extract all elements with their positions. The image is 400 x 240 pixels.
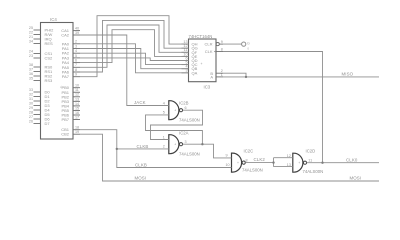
svg-text:5: 5 [163,111,165,115]
wire net IC3 CLR -> pullup pad [223,43,242,45]
svg-text:10: 10 [75,84,79,88]
svg-text:IC2B: IC2B [179,100,189,105]
svg-text:17: 17 [75,115,79,119]
svg-text:RS3: RS3 [45,78,54,83]
svg-text:1: 1 [221,73,223,77]
svg-text:9: 9 [75,73,77,77]
svg-text:33: 33 [29,88,33,92]
svg-text:D7: D7 [45,121,51,126]
connector pad at CLR [242,42,246,46]
svg-text:74ALS00N: 74ALS00N [179,118,200,123]
svg-text:2: 2 [75,40,77,44]
svg-text:2: 2 [163,145,165,149]
wire net CLK2 tie vertical [273,158,275,167]
svg-text:5: 5 [75,54,77,58]
wire net MISO : IC3 B(2) tie [223,73,246,77]
svg-text:35: 35 [29,76,33,80]
svg-text:11: 11 [75,88,79,92]
svg-text:CLK0: CLK0 [346,157,358,162]
wire net PA0 -> IC3 QA [80,44,189,73]
svg-text:32: 32 [29,92,33,96]
svg-text:27: 27 [29,115,33,119]
NAND gate IC2B (74ALS00N) [163,100,200,122]
svg-text:8: 8 [221,47,223,51]
svg-text:74ALS00N: 74ALS00N [242,167,263,172]
svg-text:28: 28 [29,110,33,114]
svg-text:MOSI: MOSI [350,175,362,180]
wire net PA5 -> IC3 QF [80,25,189,67]
svg-text:34: 34 [29,39,33,43]
NAND gate IC2D (74ALS00N) [287,148,323,174]
svg-text:74HCT164N: 74HCT164N [189,34,213,39]
wire net CLKB : CB1 -> IC2C in(10) [80,130,232,168]
IC U IC4 (6522 VIA) [29,17,80,139]
svg-text:39: 39 [75,31,79,35]
junction CLKB [116,148,118,150]
svg-text:3: 3 [185,140,187,144]
wire net IC2A out(3) -> IC2C in(9) [183,144,232,158]
svg-text:CS2: CS2 [45,56,54,61]
svg-text:RES: RES [45,41,54,46]
svg-text:26: 26 [29,119,33,123]
svg-text:IC2C: IC2C [244,148,254,153]
svg-text:40: 40 [75,27,79,31]
svg-text:o: o [247,47,249,51]
svg-text:QA: QA [192,70,198,75]
NAND gate IC2C (74ALS00N) [226,148,263,172]
wire net PA1 -> IC3 QB [80,49,189,69]
svg-text:PB7: PB7 [61,117,69,122]
svg-text:1: 1 [163,135,165,139]
svg-text:CLK: CLK [205,49,213,54]
svg-text:CLK2: CLK2 [254,157,266,162]
svg-text:10: 10 [226,163,230,167]
svg-text:12: 12 [287,154,291,158]
wire net PA3 -> IC3 QD [80,58,189,61]
svg-text:4: 4 [163,101,165,105]
svg-text:11: 11 [308,159,312,163]
svg-text:+: + [298,161,300,165]
svg-text:MOSI: MOSI [135,175,147,180]
svg-text:+: + [174,109,176,113]
wire net CLKB branch -> IC2A in(2) [117,148,169,150]
IC3 pin CLK (8) with clock chevron [216,51,223,53]
svg-text:38: 38 [29,63,33,67]
svg-text:+: + [174,143,176,147]
junction CLK2 [272,161,274,163]
svg-text:36: 36 [29,72,33,76]
svg-text:MISO: MISO [342,72,354,77]
svg-text:25: 25 [29,26,33,30]
svg-text:16: 16 [75,111,79,115]
wire net JACK : CA2 -> IC2B pin 4 [80,35,169,106]
wire net IC2A out -> IC2B in(5) [146,115,203,144]
svg-text:74ALS00N: 74ALS00N [179,152,200,157]
svg-text:24: 24 [29,49,33,53]
svg-text:+: + [237,161,239,165]
wire net PA2 -> IC3 QC [80,53,189,64]
junction CLK0 [321,162,323,164]
wire net PA6 -> IC3 QG [80,20,189,72]
IC3 pin A (1) [216,76,223,78]
IC3 pin B (2) [216,72,223,74]
svg-text:8: 8 [246,159,248,163]
junction IC2A.out / IC2B.in5 [201,143,203,145]
svg-text:CLR: CLR [204,42,212,47]
svg-text:12: 12 [75,93,79,97]
svg-text:IC2A: IC2A [179,131,189,136]
wire net PA4 -> IC3 QE [80,30,189,63]
svg-text:9: 9 [226,154,228,158]
svg-text:IC4: IC4 [50,17,57,22]
svg-text:CB2: CB2 [61,132,70,137]
svg-text:74ALS00N: 74ALS00N [303,169,324,174]
svg-text:15: 15 [75,106,79,110]
svg-text:22: 22 [29,30,33,34]
IC U IC3 (74HCT164N shift register) [182,34,224,90]
svg-text:3: 3 [185,69,187,73]
NAND gate IC2A (74ALS00N) [163,131,200,157]
svg-text:14: 14 [75,102,79,106]
svg-text:CLKB: CLKB [135,162,147,167]
wire net CLK0 : IC2D out(11) -> right edge [307,162,379,164]
svg-text:IC3: IC3 [204,85,211,90]
svg-text:23: 23 [29,54,33,58]
wire net PA7 -> IC3 QH [80,16,189,77]
svg-text:37: 37 [29,67,33,71]
svg-text:30: 30 [29,101,33,105]
svg-text:6: 6 [75,59,77,63]
svg-text:19: 19 [75,130,79,134]
svg-text:A: A [210,75,213,80]
svg-text:JACK: JACK [134,100,146,105]
IC3 pin CLR (9) with inversion bubble [216,43,219,46]
svg-text:+: + [201,62,203,66]
wire net IC2B out(6) -> IC2A in(1) [151,110,203,139]
wire net CLK2 : IC2C out(8) -> IC2D inputs [245,162,273,164]
svg-text:6: 6 [185,106,187,110]
svg-text:13: 13 [75,97,79,101]
wire net CLK2 -> IC2D in(13) [274,166,293,168]
svg-text:G: G [247,42,250,46]
svg-text:3: 3 [75,44,77,48]
svg-text:CLKB: CLKB [137,144,149,149]
svg-text:31: 31 [29,97,33,101]
svg-text:PA7: PA7 [62,74,70,79]
svg-text:21: 21 [29,35,33,39]
wire net MOSI : CB2 -> right edge [80,134,379,181]
junction MISO [245,76,247,78]
svg-text:7: 7 [75,63,77,67]
wire net CLK0 feedback -> IC3 CLK(8) [223,52,323,163]
svg-text:IC2D: IC2D [306,148,316,153]
wire net CLK2 -> IC2D in(12) [274,157,293,159]
svg-text:CA2: CA2 [61,33,70,38]
svg-text:4: 4 [75,49,77,53]
wire net MISO : IC3 A(1) -> right edge [223,76,379,78]
svg-text:8: 8 [75,68,77,72]
svg-text:9: 9 [221,40,223,44]
svg-text:18: 18 [75,126,79,130]
svg-text:29: 29 [29,106,33,110]
